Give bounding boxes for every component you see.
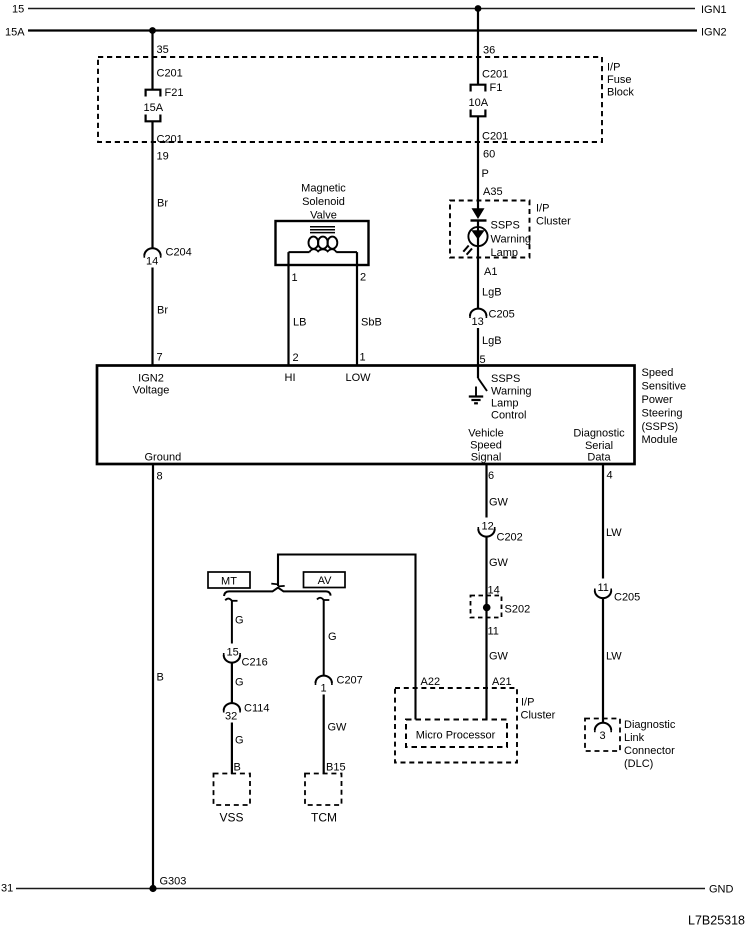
svg-text:C201: C201 (157, 68, 183, 80)
svg-text:P: P (482, 168, 489, 180)
svg-text:8: 8 (157, 471, 163, 483)
svg-text:Cluster: Cluster (521, 710, 556, 722)
svg-text:VSS: VSS (219, 811, 243, 825)
svg-text:SbB: SbB (361, 317, 382, 329)
svg-text:A1: A1 (484, 266, 497, 278)
wire C207 to TCM (323, 695, 325, 775)
fuse F21 (146, 90, 161, 122)
svg-text:(DLC): (DLC) (624, 758, 653, 770)
DLC terminal arc (opens down) (595, 723, 611, 732)
svg-text:SSPS: SSPS (491, 220, 520, 232)
branch hook to TCM (317, 598, 329, 676)
svg-text:Steering: Steering (642, 408, 683, 420)
connector C207 pin 1 (arc opens down) (316, 676, 332, 685)
svg-text:GW: GW (328, 722, 348, 734)
wire C204 to module pin 7 (151, 268, 153, 367)
module label Diagnostic Serial Data (573, 428, 625, 464)
I/P cluster name (536, 203, 571, 228)
option AV box (304, 572, 346, 588)
svg-text:LgB: LgB (482, 287, 502, 299)
svg-text:15: 15 (227, 647, 239, 659)
svg-text:2: 2 (360, 272, 366, 284)
svg-text:10A: 10A (469, 97, 489, 109)
splice S202 dot (483, 604, 491, 612)
option bus line (224, 588, 331, 596)
option split break symbol (271, 584, 284, 587)
wire IGN2 rail (28, 29, 697, 31)
SSPS module box (97, 366, 635, 465)
svg-text:(SSPS): (SSPS) (642, 421, 679, 433)
svg-text:11: 11 (488, 626, 499, 638)
svg-text:A35: A35 (483, 186, 503, 198)
DLC name (624, 719, 676, 770)
svg-text:LB: LB (293, 317, 306, 329)
svg-text:Control: Control (491, 410, 526, 422)
I/P cluster name (521, 697, 556, 722)
svg-text:B: B (234, 762, 241, 774)
svg-text:Power: Power (642, 394, 674, 406)
SSPS warning lamp name (491, 220, 532, 260)
svg-text:Block: Block (607, 87, 634, 99)
svg-text:36: 36 (483, 45, 495, 57)
svg-text:Lamp: Lamp (491, 398, 519, 410)
wire C205 to DLC (602, 598, 604, 723)
svg-text:C201: C201 (157, 134, 183, 146)
svg-text:Serial: Serial (585, 440, 613, 452)
svg-text:Link: Link (624, 732, 645, 744)
svg-text:A21: A21 (492, 676, 512, 688)
svg-text:19: 19 (157, 151, 169, 163)
wire solenoid pin1 to module pin2 (HI) (287, 252, 289, 366)
svg-text:35: 35 (157, 44, 169, 56)
svg-text:Sensitive: Sensitive (642, 381, 687, 393)
svg-text:1: 1 (292, 272, 298, 284)
svg-text:Speed: Speed (642, 367, 674, 379)
ground symbol inside module (469, 387, 483, 404)
svg-text:GND: GND (709, 884, 734, 896)
connector C114 pin 32 (arc opens down) (224, 703, 240, 712)
svg-text:C114: C114 (244, 703, 269, 715)
svg-text:G303: G303 (160, 876, 187, 888)
ground rail G303 (16, 888, 705, 890)
junction dot on IGN2 at x=152.5 (149, 27, 156, 34)
svg-text:C202: C202 (497, 532, 523, 544)
svg-text:Signal: Signal (471, 452, 502, 464)
svg-text:Connector: Connector (624, 745, 675, 757)
svg-text:C216: C216 (242, 657, 268, 669)
connector C205 pin13 (arc opens down) (470, 309, 486, 318)
svg-text:B15: B15 (326, 762, 346, 774)
solenoid core lines (310, 227, 335, 233)
svg-text:IGN2: IGN2 (701, 27, 727, 39)
svg-text:Diagnostic: Diagnostic (624, 719, 676, 731)
svg-text:Magnetic: Magnetic (301, 183, 346, 195)
svg-text:Speed: Speed (470, 440, 502, 452)
svg-text:14: 14 (146, 256, 158, 268)
svg-text:15A: 15A (144, 102, 164, 114)
svg-text:LOW: LOW (346, 372, 372, 384)
svg-text:60: 60 (483, 149, 495, 161)
magnetic solenoid valve box (276, 221, 369, 265)
diode (anode of SSPS lamp) (471, 208, 487, 220)
svg-text:Warning: Warning (491, 234, 532, 246)
svg-text:Micro Processor: Micro Processor (416, 730, 496, 742)
wire C202 to S202 (485, 537, 487, 608)
option MT box (208, 572, 250, 588)
wire option bus riser to micro processor (278, 555, 416, 720)
svg-text:Module: Module (642, 434, 678, 446)
svg-text:1: 1 (360, 352, 366, 364)
connector C216 pin 15 (arc opens up) (224, 647, 240, 663)
svg-text:15A: 15A (5, 27, 25, 39)
svg-text:Vehicle: Vehicle (468, 428, 503, 440)
DLC dashed box (585, 719, 620, 752)
svg-text:7: 7 (157, 352, 163, 364)
svg-text:B: B (157, 672, 164, 684)
svg-text:1: 1 (321, 683, 327, 695)
svg-text:IGN2: IGN2 (138, 373, 164, 385)
switch blade + ground inside module (SSPS warning lamp control) (478, 366, 487, 391)
connector C204 (arc opens down) (144, 248, 160, 257)
svg-text:13: 13 (472, 316, 484, 328)
wire from IGN2 to fuse F21 (151, 31, 153, 90)
svg-text:SSPS: SSPS (491, 373, 520, 385)
svg-text:LW: LW (606, 527, 622, 539)
wire from IGN1 to fuse F1 (477, 9, 479, 85)
wire C216 to C114 (231, 663, 233, 703)
svg-text:C201: C201 (482, 131, 508, 143)
svg-text:GW: GW (489, 497, 509, 509)
svg-text:G: G (235, 677, 244, 689)
branch hook to VSS (225, 599, 237, 644)
svg-text:S202: S202 (505, 604, 531, 616)
magnetic solenoid valve name (301, 183, 346, 222)
wire diagnostic serial data from pin 4 (602, 465, 604, 579)
svg-text:Cluster: Cluster (536, 216, 571, 228)
svg-text:LgB: LgB (482, 335, 502, 347)
svg-text:Diagnostic: Diagnostic (573, 428, 625, 440)
connector C205 pin 11 (arc opens up) (595, 582, 611, 598)
svg-text:Br: Br (157, 305, 168, 317)
wire S202 to I/P cluster pin A21 (485, 608, 487, 720)
wire ground B from module pin 8 to G303 (152, 465, 154, 889)
svg-text:F1: F1 (490, 82, 503, 94)
svg-text:L7B25318: L7B25318 (688, 914, 745, 928)
svg-text:32: 32 (225, 711, 237, 723)
I/P cluster dashed box (lamp) (450, 201, 530, 258)
svg-text:GW: GW (489, 651, 509, 663)
splice S202 dashed box (471, 596, 502, 618)
TCM dashed box (305, 774, 342, 806)
module label SSPS Warning Lamp Control (491, 373, 532, 422)
solenoid coil L1 (289, 237, 358, 253)
svg-text:4: 4 (607, 470, 613, 482)
svg-text:IGN1: IGN1 (701, 4, 727, 16)
svg-text:C201: C201 (482, 69, 508, 81)
I/P fuse block name (607, 62, 634, 99)
svg-text:Data: Data (587, 452, 611, 464)
svg-text:12: 12 (482, 521, 494, 533)
svg-text:C207: C207 (337, 675, 363, 687)
svg-text:I/P: I/P (607, 62, 620, 74)
SSPS module name (642, 367, 687, 446)
svg-text:Warning: Warning (491, 386, 532, 398)
svg-text:MT: MT (221, 576, 237, 588)
svg-text:TCM: TCM (311, 811, 337, 825)
svg-text:C205: C205 (489, 309, 515, 321)
svg-text:F21: F21 (165, 87, 184, 99)
fuse F1 (471, 85, 486, 117)
svg-text:C205: C205 (614, 592, 640, 604)
svg-text:11: 11 (598, 582, 609, 594)
svg-text:Fuse: Fuse (607, 74, 631, 86)
wire C114 to VSS (231, 723, 233, 775)
connector C202 pin 12 (arc opens up) (478, 521, 494, 537)
svg-text:Valve: Valve (310, 210, 337, 222)
svg-text:15: 15 (12, 4, 24, 16)
svg-text:Solenoid: Solenoid (302, 196, 345, 208)
svg-text:G: G (235, 735, 244, 747)
junction dot on IGN1 at x=478 (475, 5, 482, 12)
svg-text:2: 2 (293, 352, 299, 364)
svg-text:C204: C204 (166, 247, 192, 259)
SSPS warning lamp (circle with triangle) (463, 221, 487, 367)
svg-text:I/P: I/P (536, 203, 549, 215)
svg-text:31: 31 (1, 883, 13, 895)
svg-text:G: G (328, 631, 337, 643)
junction dot G303 (149, 885, 156, 892)
svg-text:GW: GW (489, 557, 509, 569)
micro processor dashed box (406, 720, 507, 748)
wire from F1 down to diode (477, 116, 479, 209)
svg-text:A22: A22 (421, 676, 441, 688)
svg-text:6: 6 (488, 470, 494, 482)
svg-text:HI: HI (285, 372, 296, 384)
svg-text:I/P: I/P (521, 697, 534, 709)
svg-text:Ground: Ground (145, 452, 182, 464)
svg-text:Lamp: Lamp (491, 247, 519, 259)
svg-text:Br: Br (157, 198, 168, 210)
wire from F21 down to SSPS module pin 7 (151, 121, 153, 248)
I/P cluster dashed box (micro processor) (395, 688, 517, 763)
module label IGN2 Voltage (133, 373, 170, 397)
svg-text:Voltage: Voltage (133, 385, 170, 397)
svg-text:AV: AV (318, 575, 333, 587)
module label Vehicle Speed Signal (468, 428, 503, 464)
svg-text:LW: LW (606, 651, 622, 663)
svg-text:3: 3 (600, 730, 606, 742)
wire vehicle speed signal from pin 6 (485, 465, 487, 518)
svg-text:G: G (235, 615, 244, 627)
wire IGN1 rail (28, 8, 695, 10)
wire solenoid pin2 to module pin1 (LOW) (356, 252, 358, 366)
I/P fuse block dashed box (98, 57, 602, 142)
VSS dashed box (214, 774, 251, 806)
